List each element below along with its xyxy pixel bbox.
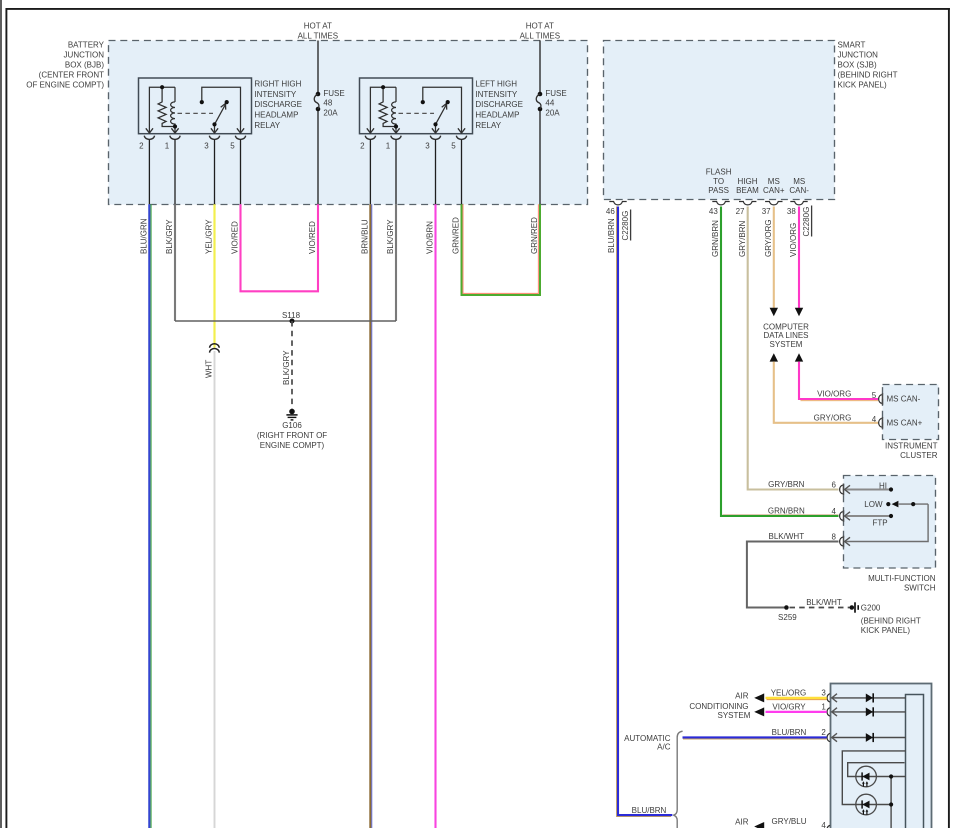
svg-text:(RIGHT FRONT OF: (RIGHT FRONT OF bbox=[257, 431, 327, 440]
svg-text:HOT AT: HOT AT bbox=[304, 21, 332, 30]
svg-text:C2280G: C2280G bbox=[802, 207, 811, 237]
phototransistor loop upper bbox=[842, 751, 906, 805]
arrow into computer data lines (GRY/ORG) bbox=[770, 308, 778, 316]
smart junction box (SJB) enclosure bbox=[604, 41, 835, 200]
node S259 bbox=[784, 605, 789, 610]
instrument cluster pin 4 connector bbox=[879, 418, 882, 427]
svg-text:5: 5 bbox=[451, 142, 456, 151]
svg-text:INSTRUMENT: INSTRUMENT bbox=[885, 441, 938, 450]
svg-text:4: 4 bbox=[832, 507, 837, 516]
svg-text:JUNCTION: JUNCTION bbox=[64, 50, 105, 59]
svg-text:CONDITIONING: CONDITIONING bbox=[689, 702, 748, 711]
svg-text:20A: 20A bbox=[545, 108, 560, 117]
svg-text:SYSTEM: SYSTEM bbox=[770, 340, 803, 349]
right HID headlamp relay coil with parallel resistor bbox=[149, 87, 175, 132]
svg-text:BLU/BRN: BLU/BRN bbox=[607, 218, 616, 253]
wire BLU/BRN from SJB pin 46 to A/C brace bbox=[617, 207, 671, 817]
instrument cluster pin 5 connector bbox=[879, 395, 882, 404]
svg-text:MS: MS bbox=[768, 177, 780, 186]
svg-text:SMART: SMART bbox=[838, 40, 866, 49]
svg-text:FUSE: FUSE bbox=[545, 89, 566, 98]
svg-text:HOT AT: HOT AT bbox=[526, 21, 554, 30]
A/C pin 2 connector and internal diode bbox=[827, 733, 830, 741]
right HID headlamp relay switch blade arrowhead bbox=[221, 103, 226, 109]
wire VIO/GRY to air conditioning system bbox=[766, 711, 827, 713]
svg-text:1: 1 bbox=[821, 703, 826, 712]
wire YEL/ORG to air conditioning system bbox=[766, 697, 827, 699]
phototransistor Q1 (illumination LED) bbox=[856, 766, 877, 787]
wire GRY/BRN from SJB pin 27 to multi-function switch pin 6 bbox=[748, 207, 839, 490]
svg-text:BEAM: BEAM bbox=[736, 186, 759, 195]
automatic A/C option brace bbox=[673, 731, 682, 828]
svg-text:S118: S118 bbox=[282, 311, 301, 320]
LED return bus bbox=[890, 777, 892, 828]
svg-text:BLK/GRY: BLK/GRY bbox=[282, 350, 291, 385]
svg-text:(BEHIND RIGHT: (BEHIND RIGHT bbox=[861, 616, 921, 625]
svg-text:2: 2 bbox=[139, 142, 144, 151]
arrow out of computer data lines (GRY/ORG) bbox=[770, 353, 778, 361]
svg-text:OF ENGINE COMPT): OF ENGINE COMPT) bbox=[26, 81, 104, 90]
wire BRN/BLU from relay L pin 2 bbox=[371, 204, 373, 828]
svg-text:2: 2 bbox=[821, 728, 826, 737]
fuse 48 wire from box top bbox=[317, 41, 319, 93]
svg-text:5: 5 bbox=[230, 142, 235, 151]
svg-text:GRN/RED: GRN/RED bbox=[452, 217, 461, 254]
svg-text:KICK PANEL): KICK PANEL) bbox=[861, 626, 911, 635]
svg-text:6: 6 bbox=[832, 480, 837, 489]
svg-text:BLK/GRY: BLK/GRY bbox=[165, 219, 174, 254]
svg-text:JUNCTION: JUNCTION bbox=[838, 50, 879, 59]
arrow to air conditioning system (GRY/BLU) bbox=[754, 822, 764, 828]
svg-text:A/C: A/C bbox=[657, 743, 671, 752]
svg-text:RELAY: RELAY bbox=[475, 121, 501, 130]
ground G106 symbol bbox=[289, 409, 295, 415]
wire VIO/ORG to instrument cluster pin 5 bbox=[799, 362, 878, 399]
svg-text:HEADLAMP: HEADLAMP bbox=[475, 111, 519, 120]
svg-text:4: 4 bbox=[821, 821, 826, 828]
svg-text:MS: MS bbox=[793, 177, 805, 186]
svg-text:DATA LINES: DATA LINES bbox=[763, 331, 808, 340]
svg-text:G200: G200 bbox=[861, 604, 881, 613]
svg-text:BLK/WHT: BLK/WHT bbox=[806, 598, 842, 607]
wire VIO/RED from relay R pin 5 to fuse 48 (U link) bbox=[241, 204, 319, 291]
svg-text:BLK/GRY: BLK/GRY bbox=[386, 219, 395, 254]
multi-function switch FTP contact bbox=[844, 515, 891, 517]
svg-text:FUSE: FUSE bbox=[323, 89, 344, 98]
svg-text:INTENSITY: INTENSITY bbox=[254, 90, 296, 99]
left HID headlamp relay box bbox=[360, 78, 473, 134]
multi-function switch enclosure bbox=[844, 476, 936, 569]
svg-text:2: 2 bbox=[360, 142, 365, 151]
svg-text:FTP: FTP bbox=[872, 518, 887, 527]
svg-text:YEL/GRY: YEL/GRY bbox=[205, 219, 214, 254]
svg-text:44: 44 bbox=[545, 99, 554, 108]
svg-text:38: 38 bbox=[787, 207, 796, 216]
instrument cluster pin edge bars bbox=[882, 393, 884, 405]
svg-text:43: 43 bbox=[709, 207, 718, 216]
instrument cluster enclosure bbox=[883, 385, 939, 440]
wire GRN/RED from relay L pin 5 to fuse 44 (U link) bbox=[463, 204, 538, 293]
node S118 bbox=[290, 319, 295, 324]
A/C internal bus bar bbox=[906, 695, 924, 828]
svg-text:4: 4 bbox=[872, 415, 877, 424]
fuse 44 wire from box top bbox=[539, 41, 541, 93]
svg-text:AIR: AIR bbox=[735, 818, 749, 827]
multi-function switch pin edge bars bbox=[843, 484, 845, 496]
node at Q1 output bbox=[889, 774, 893, 778]
svg-text:3: 3 bbox=[821, 689, 826, 698]
wire BLK/GRY from relay R pin 1 bbox=[174, 204, 176, 321]
wire VIO/ORG from SJB pin 38 to computer data lines bbox=[798, 207, 800, 309]
right HID headlamp relay switch contact dots bbox=[212, 122, 216, 126]
svg-text:DISCHARGE: DISCHARGE bbox=[254, 100, 302, 109]
in-line connector on headlamp feed bbox=[210, 344, 220, 348]
left HID headlamp relay switch contacts bbox=[423, 87, 462, 132]
svg-text:BOX (SJB): BOX (SJB) bbox=[838, 60, 877, 69]
battery junction box (BJB) enclosure bbox=[109, 41, 588, 205]
svg-text:BLU/GRN: BLU/GRN bbox=[140, 218, 149, 254]
splice S118 bus BLK/GRY bbox=[175, 320, 396, 322]
right HID headlamp relay pin connector cups bbox=[144, 136, 154, 140]
svg-text:AUTOMATIC: AUTOMATIC bbox=[624, 734, 671, 743]
wire GRN/BRN from SJB pin 43 to multi-function switch pin 4 bbox=[721, 207, 839, 517]
svg-text:ENGINE COMPT): ENGINE COMPT) bbox=[260, 441, 325, 450]
svg-text:BLU/BRN: BLU/BRN bbox=[772, 728, 807, 737]
left HID headlamp relay coil with parallel resistor bbox=[370, 87, 396, 132]
svg-text:46: 46 bbox=[606, 207, 615, 216]
wire BLU/GRN from relay R pin 2 bbox=[150, 204, 152, 828]
node at Q2 output bbox=[889, 802, 893, 806]
left HID headlamp relay switch contact dots bbox=[433, 122, 437, 126]
wire GRY/ORG to instrument cluster pin 4 bbox=[774, 362, 878, 423]
svg-text:VIO/BRN: VIO/BRN bbox=[426, 221, 435, 254]
svg-text:3: 3 bbox=[425, 142, 430, 151]
svg-text:WHT: WHT bbox=[205, 360, 214, 378]
svg-text:S259: S259 bbox=[778, 613, 797, 622]
svg-text:CAN-: CAN- bbox=[789, 186, 809, 195]
svg-text:37: 37 bbox=[762, 207, 771, 216]
arrow to air conditioning system (VIO/GRY) bbox=[754, 707, 764, 716]
right HID headlamp relay coil junction dots bbox=[160, 85, 164, 89]
svg-text:CAN+: CAN+ bbox=[763, 186, 785, 195]
svg-text:TO: TO bbox=[713, 177, 724, 186]
left HID headlamp relay switch blade arrowhead bbox=[442, 103, 447, 109]
svg-text:SWITCH: SWITCH bbox=[904, 583, 936, 592]
svg-text:ALL TIMES: ALL TIMES bbox=[298, 31, 338, 40]
right HID headlamp relay box bbox=[139, 78, 252, 134]
left HID headlamp relay pin arrows bbox=[367, 128, 374, 133]
left HID headlamp relay pin wires inside BJB bbox=[369, 139, 371, 204]
svg-text:LOW: LOW bbox=[864, 500, 883, 509]
svg-text:DISCHARGE: DISCHARGE bbox=[475, 100, 523, 109]
arrow into computer data lines (VIO/ORG) bbox=[795, 308, 803, 316]
svg-text:HI: HI bbox=[879, 481, 887, 490]
svg-text:YEL/ORG: YEL/ORG bbox=[771, 689, 807, 698]
svg-text:(BEHIND RIGHT: (BEHIND RIGHT bbox=[838, 70, 898, 79]
svg-text:HIGH: HIGH bbox=[738, 177, 758, 186]
left HID headlamp relay coil junction dots bbox=[381, 85, 385, 89]
svg-text:BRN/BLU: BRN/BLU bbox=[361, 219, 370, 254]
svg-text:GRY/BRN: GRY/BRN bbox=[738, 220, 747, 257]
svg-text:SYSTEM: SYSTEM bbox=[717, 711, 750, 720]
left HID headlamp relay pin connector cups bbox=[365, 136, 375, 140]
right HID headlamp relay switch contacts bbox=[202, 87, 241, 132]
svg-text:BLU/BRN: BLU/BRN bbox=[632, 806, 667, 815]
phototransistor Q2 (illumination LED) bbox=[856, 794, 877, 815]
svg-text:RELAY: RELAY bbox=[254, 121, 280, 130]
right HID headlamp relay coil-switch dashed link bbox=[178, 112, 214, 114]
svg-text:GRY/ORG: GRY/ORG bbox=[764, 219, 773, 257]
multi-function switch pin connectors bbox=[840, 485, 843, 494]
arrow to air conditioning system (YEL/ORG) bbox=[754, 693, 764, 702]
svg-text:1: 1 bbox=[165, 142, 170, 151]
fuse 44 symbol bbox=[538, 92, 543, 97]
arrow out of computer data lines (VIO/ORG) bbox=[795, 353, 803, 361]
svg-text:C2280G: C2280G bbox=[621, 211, 630, 241]
svg-text:VIO/RED: VIO/RED bbox=[308, 221, 317, 254]
svg-text:BATTERY: BATTERY bbox=[68, 40, 105, 49]
svg-text:ALL TIMES: ALL TIMES bbox=[520, 31, 560, 40]
svg-text:27: 27 bbox=[736, 207, 745, 216]
wire BLK/WHT from switch pin 8 bbox=[747, 542, 839, 608]
svg-text:HEADLAMP: HEADLAMP bbox=[254, 111, 298, 120]
BJB label bbox=[26, 40, 104, 89]
multi-function switch pin 8 feed to wiper bbox=[844, 504, 928, 541]
SJB pin connector cups bbox=[609, 202, 626, 205]
wire BLU/BRN automatic A/C to pin 2 bbox=[683, 736, 827, 738]
svg-text:20A: 20A bbox=[323, 108, 338, 117]
svg-text:FLASH: FLASH bbox=[706, 167, 732, 176]
wire WHT to right headlamp bbox=[214, 351, 216, 828]
svg-text:GRY/ORG: GRY/ORG bbox=[814, 413, 852, 422]
svg-text:MS CAN+: MS CAN+ bbox=[887, 418, 923, 427]
wire GRY/ORG from SJB pin 37 to computer data lines bbox=[773, 207, 775, 309]
svg-text:BLK/WHT: BLK/WHT bbox=[769, 532, 805, 541]
svg-text:BOX (BJB): BOX (BJB) bbox=[65, 60, 104, 69]
svg-text:MULTI-FUNCTION: MULTI-FUNCTION bbox=[868, 574, 936, 583]
A/C pin 1 connector and internal diode bbox=[827, 708, 830, 716]
multi-function switch HI contact bbox=[844, 489, 891, 491]
A/C pin 3 connector and internal diode bbox=[827, 694, 830, 702]
svg-text:1: 1 bbox=[386, 142, 391, 151]
svg-text:AIR: AIR bbox=[735, 692, 749, 701]
ground G200 symbol bbox=[850, 605, 855, 610]
left HID headlamp relay coil-switch dashed link bbox=[399, 112, 435, 114]
svg-text:VIO/RED: VIO/RED bbox=[231, 221, 240, 254]
svg-text:PASS: PASS bbox=[708, 186, 729, 195]
svg-text:GRN/BRN: GRN/BRN bbox=[711, 220, 720, 257]
svg-text:RIGHT HIGH: RIGHT HIGH bbox=[254, 79, 301, 88]
phototransistor loop lower bbox=[848, 763, 906, 777]
svg-text:3: 3 bbox=[204, 142, 209, 151]
svg-text:5: 5 bbox=[872, 391, 877, 400]
svg-text:CLUSTER: CLUSTER bbox=[900, 451, 938, 460]
wire BLK/GRY to ground (dashed) bbox=[291, 321, 293, 409]
svg-text:G106: G106 bbox=[282, 421, 302, 430]
svg-text:VIO/ORG: VIO/ORG bbox=[817, 390, 851, 399]
A/C control head enclosure bbox=[831, 684, 932, 828]
svg-text:MS CAN-: MS CAN- bbox=[887, 395, 921, 404]
svg-text:VIO/ORG: VIO/ORG bbox=[789, 223, 798, 257]
wire VIO/BRN from relay L pin 3 bbox=[434, 204, 436, 828]
wire YEL/GRY from relay R pin 3 bbox=[213, 204, 215, 347]
wire BLK/WHT to ground G200 (dashed) bbox=[790, 607, 850, 609]
svg-text:LEFT HIGH: LEFT HIGH bbox=[475, 79, 517, 88]
svg-text:8: 8 bbox=[832, 532, 837, 541]
right HID headlamp relay pin arrows bbox=[146, 128, 153, 133]
svg-text:VIO/GRY: VIO/GRY bbox=[772, 703, 806, 712]
svg-text:GRY/BRN: GRY/BRN bbox=[768, 480, 805, 489]
svg-text:GRY/BLU: GRY/BLU bbox=[772, 817, 807, 826]
fuse 48 symbol bbox=[316, 92, 321, 97]
svg-text:48: 48 bbox=[323, 99, 332, 108]
svg-text:KICK PANEL): KICK PANEL) bbox=[838, 81, 888, 90]
right HID headlamp relay pin wires inside BJB bbox=[148, 139, 150, 204]
svg-text:GRN/BRN: GRN/BRN bbox=[768, 507, 805, 516]
wire BLK/GRY from relay L pin 1 bbox=[395, 204, 397, 321]
svg-text:GRN/RED: GRN/RED bbox=[530, 217, 539, 254]
svg-text:INTENSITY: INTENSITY bbox=[475, 90, 517, 99]
svg-text:COMPUTER: COMPUTER bbox=[763, 322, 809, 331]
svg-text:(CENTER FRONT: (CENTER FRONT bbox=[39, 70, 104, 79]
